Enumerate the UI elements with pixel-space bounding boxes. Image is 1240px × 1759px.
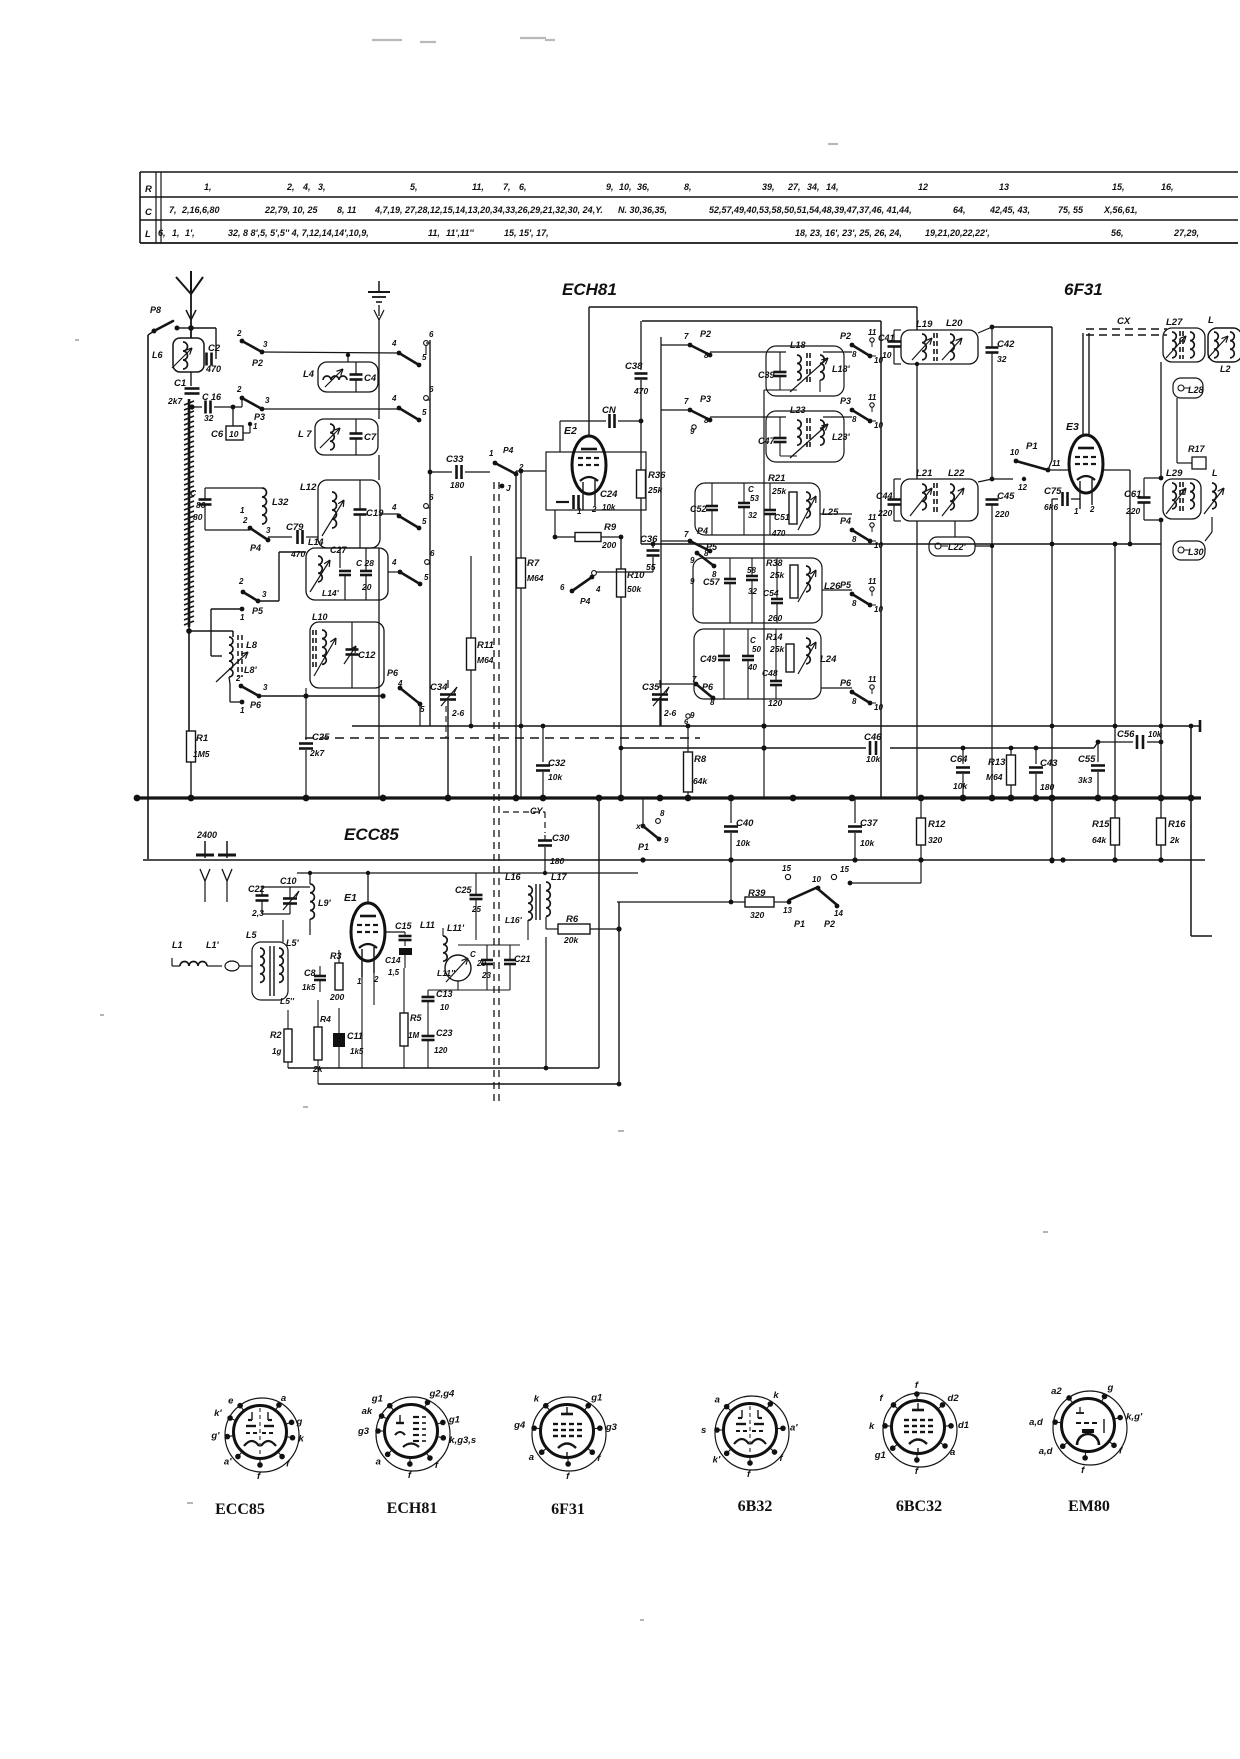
svg-text:L29: L29	[1166, 468, 1183, 479]
parts index table frame	[140, 171, 1238, 173]
coil L32 C80	[199, 498, 212, 501]
svg-text:C24: C24	[600, 489, 618, 500]
svg-text:29: 29	[476, 959, 486, 968]
wire to L19 module	[916, 307, 918, 330]
svg-text:4: 4	[391, 394, 397, 403]
svg-text:15: 15	[840, 865, 849, 874]
transformer L18 L18' C39	[766, 346, 844, 396]
svg-text:20: 20	[361, 582, 372, 592]
capacitor C55 3k3	[1097, 742, 1099, 762]
ferrite rod hatched line	[188, 399, 191, 627]
svg-text:C34: C34	[430, 682, 448, 693]
capacitor C43 180	[1035, 748, 1037, 764]
svg-text:9,: 9,	[606, 182, 614, 192]
svg-text:3: 3	[262, 590, 267, 599]
svg-text:8: 8	[852, 415, 857, 424]
link to L5	[225, 961, 239, 971]
svg-text:75, 55: 75, 55	[1058, 205, 1084, 215]
svg-text:1: 1	[253, 422, 258, 431]
capacitor C79 470	[268, 536, 292, 538]
tube socket 6BC32	[869, 1380, 969, 1477]
switch P6 matrix right	[821, 687, 852, 689]
svg-text:X,56,61,: X,56,61,	[1103, 205, 1138, 215]
wire line B y=748	[621, 747, 866, 749]
capacitor C2 470	[191, 327, 216, 329]
svg-text:L5'': L5''	[280, 996, 295, 1006]
switch P4 mixer	[495, 463, 516, 474]
svg-text:C10: C10	[280, 876, 297, 886]
svg-text:C41: C41	[878, 333, 895, 343]
svg-text:22,79, 10, 25: 22,79, 10, 25	[264, 205, 319, 215]
wire top line ECC85	[297, 872, 638, 874]
module L27	[1163, 328, 1205, 362]
svg-text:2: 2	[236, 385, 242, 394]
chassis rail	[378, 320, 380, 419]
svg-text:10: 10	[812, 875, 821, 884]
module L21 L22	[901, 479, 978, 521]
svg-text:C40: C40	[736, 818, 754, 829]
svg-text:L16: L16	[505, 872, 522, 882]
svg-text:C14: C14	[385, 955, 401, 965]
svg-text:27,29,: 27,29,	[1173, 228, 1199, 238]
capacitors C29 C21	[458, 944, 520, 946]
svg-text:320: 320	[750, 910, 764, 920]
switch P5 matrix right	[822, 589, 852, 591]
svg-text:56,: 56,	[1111, 228, 1124, 238]
svg-text:50: 50	[752, 645, 761, 654]
module R38 L26 row	[693, 558, 822, 623]
svg-text:P1: P1	[794, 919, 805, 929]
svg-text:L9': L9'	[318, 898, 332, 908]
svg-text:C55: C55	[1078, 754, 1096, 765]
svg-text:200: 200	[601, 540, 616, 550]
svg-text:k: k	[869, 1421, 875, 1432]
resistor R4 2k	[314, 1027, 322, 1060]
svg-text:C33: C33	[446, 454, 464, 465]
svg-text:L19: L19	[916, 319, 933, 330]
svg-text:C32: C32	[548, 758, 566, 769]
capacitor C1 2k7	[190, 372, 192, 386]
svg-text:7,: 7,	[503, 182, 511, 192]
svg-text:11: 11	[868, 328, 877, 337]
switch P4 if	[596, 571, 653, 573]
module L19 L20	[901, 330, 978, 364]
svg-text:C7: C7	[364, 432, 377, 443]
svg-text:C46: C46	[864, 732, 882, 743]
resistor R1 1M5	[187, 731, 196, 762]
module L12 C19	[318, 480, 380, 548]
svg-text:a': a'	[790, 1422, 798, 1433]
svg-text:P6: P6	[840, 678, 852, 688]
svg-text:L: L	[1212, 468, 1218, 478]
svg-text:2,16,6,80: 2,16,6,80	[181, 205, 220, 215]
svg-text:1,: 1,	[172, 228, 180, 238]
svg-text:R13: R13	[988, 757, 1006, 768]
svg-text:P3: P3	[700, 394, 711, 404]
svg-text:10k: 10k	[602, 503, 616, 512]
coil L9	[310, 884, 314, 919]
resistor R10 50k	[620, 537, 622, 569]
svg-text:L5: L5	[246, 930, 257, 940]
svg-text:C30: C30	[552, 833, 570, 844]
wire left drop	[142, 859, 144, 861]
svg-text:g: g	[1107, 1382, 1114, 1393]
svg-text:1: 1	[240, 506, 245, 515]
svg-text:C: C	[190, 488, 197, 498]
capacitor C36 55	[651, 542, 656, 547]
capacitor C42 32	[986, 346, 999, 349]
svg-text:6F31: 6F31	[551, 1501, 585, 1518]
svg-text:25k: 25k	[769, 570, 785, 580]
capacitor CN	[560, 420, 606, 422]
svg-text:C15: C15	[395, 921, 413, 931]
svg-text:g1: g1	[371, 1394, 383, 1405]
wire P6 row	[419, 704, 421, 726]
svg-text:1k5: 1k5	[302, 983, 316, 992]
svg-text:L32: L32	[272, 497, 289, 508]
ground symbol	[378, 281, 380, 292]
svg-text:1: 1	[1074, 507, 1079, 516]
svg-text:4: 4	[391, 503, 397, 512]
svg-text:k: k	[298, 1434, 304, 1445]
tube socket EM80	[1029, 1382, 1143, 1475]
svg-text:470: 470	[290, 549, 305, 559]
transformer L23 L23' C47	[766, 411, 844, 462]
svg-text:R17: R17	[1188, 444, 1206, 454]
svg-text:L11': L11'	[447, 923, 465, 933]
transformer L5 L5'	[252, 942, 288, 1000]
svg-text:10k: 10k	[1148, 730, 1162, 739]
svg-text:8: 8	[852, 697, 857, 706]
svg-text:R15: R15	[1092, 819, 1110, 830]
antenna	[176, 277, 191, 294]
svg-text:P2: P2	[252, 358, 263, 368]
svg-text:C: C	[750, 636, 756, 645]
svg-text:a': a'	[224, 1457, 232, 1468]
module R21 L25 row	[695, 483, 820, 535]
wire E1 leads down	[361, 949, 363, 1068]
svg-text:5: 5	[422, 408, 427, 417]
wire right column down	[1160, 520, 1162, 726]
wire right verticals	[1160, 726, 1162, 818]
svg-text:2: 2	[1089, 505, 1095, 514]
capacitor C40 10k	[730, 798, 732, 823]
svg-text:L18': L18'	[832, 364, 851, 374]
svg-text:L14: L14	[308, 537, 324, 547]
svg-text:L23: L23	[790, 405, 806, 415]
svg-text:10: 10	[874, 541, 883, 550]
svg-text:C44: C44	[876, 491, 893, 501]
resistor R8 64k	[687, 726, 689, 752]
dashed coupling line	[305, 737, 700, 739]
svg-text:80: 80	[196, 500, 206, 510]
svg-text:32, 8 8',5, 5',5'' 4, 7,12,14,: 32, 8 8',5, 5',5'' 4, 7,12,14,14',10,9,	[228, 228, 369, 238]
capacitor C61 220	[1138, 496, 1151, 499]
svg-text:L11: L11	[420, 920, 435, 930]
matrix box top	[642, 320, 881, 322]
svg-text:220: 220	[1125, 506, 1140, 516]
svg-text:55: 55	[646, 562, 656, 572]
svg-text:11: 11	[868, 393, 877, 402]
svg-text:C79: C79	[286, 522, 304, 533]
svg-text:14,: 14,	[826, 182, 839, 192]
svg-text:C47: C47	[758, 436, 776, 446]
wire output verticals	[598, 798, 600, 1068]
matrix left rail	[660, 337, 662, 726]
svg-text:CN: CN	[602, 405, 617, 416]
svg-text:10k: 10k	[548, 772, 563, 782]
resistor R12 320	[920, 798, 922, 818]
svg-text:R16: R16	[1168, 819, 1186, 830]
svg-text:L30': L30'	[1188, 547, 1207, 557]
sub coil L22'	[929, 537, 975, 556]
wire long line A y=726	[352, 725, 1200, 727]
svg-text:3: 3	[266, 526, 271, 535]
svg-text:320: 320	[928, 835, 942, 845]
svg-text:P2: P2	[840, 331, 851, 341]
svg-text:1M: 1M	[408, 1031, 419, 1040]
svg-text:P3: P3	[254, 412, 265, 422]
svg-text:P4: P4	[697, 526, 708, 536]
capacitor C41 10	[888, 340, 901, 343]
wire L22 top to P1	[978, 479, 992, 482]
svg-text:8: 8	[852, 599, 857, 608]
CX dashed coupling	[1082, 333, 1084, 436]
svg-text:10k: 10k	[860, 838, 875, 848]
svg-text:L22': L22'	[948, 542, 967, 552]
svg-text:P1: P1	[1026, 441, 1038, 452]
svg-text:g4: g4	[513, 1420, 526, 1431]
svg-text:ECH81: ECH81	[562, 280, 617, 299]
svg-text:R: R	[145, 184, 152, 195]
svg-text:C56: C56	[1117, 729, 1135, 740]
resistor R5 1M	[400, 1013, 408, 1046]
svg-text:L24: L24	[820, 654, 837, 665]
svg-text:2k7: 2k7	[167, 396, 183, 406]
svg-text:EM80: EM80	[1068, 1498, 1110, 1515]
svg-text:12: 12	[918, 182, 928, 192]
svg-text:10: 10	[440, 1003, 449, 1012]
svg-text:C22: C22	[248, 884, 265, 894]
svg-text:5,: 5,	[410, 182, 418, 192]
svg-text:s: s	[701, 1425, 706, 1436]
wire lower rail y=860	[143, 859, 1205, 861]
svg-text:a: a	[950, 1447, 955, 1458]
svg-text:9: 9	[690, 577, 695, 586]
svg-text:J: J	[506, 483, 511, 493]
svg-text:L5': L5'	[286, 938, 300, 948]
svg-text:3k3: 3k3	[1078, 775, 1092, 785]
svg-text:7: 7	[684, 332, 689, 341]
svg-text:C38: C38	[625, 361, 643, 372]
svg-text:d2: d2	[948, 1393, 960, 1404]
svg-text:32: 32	[997, 354, 1007, 364]
svg-text:a2: a2	[1051, 1386, 1062, 1397]
sub coil L28	[1173, 378, 1203, 398]
svg-text:40: 40	[747, 663, 757, 672]
svg-text:a: a	[376, 1456, 381, 1467]
svg-text:7,: 7,	[169, 205, 177, 215]
svg-text:10: 10	[874, 605, 883, 614]
wire C22 C10 tops	[262, 886, 310, 888]
svg-text:C11: C11	[347, 1031, 363, 1041]
svg-text:C48: C48	[762, 668, 778, 678]
svg-text:10: 10	[874, 703, 883, 712]
svg-text:C49: C49	[700, 654, 717, 664]
svg-text:220: 220	[994, 509, 1009, 519]
svg-text:a: a	[529, 1452, 534, 1463]
svg-text:120: 120	[768, 698, 782, 708]
svg-text:P5: P5	[706, 542, 718, 552]
module L10 C12	[310, 622, 384, 688]
tube socket 6F31	[513, 1393, 618, 1482]
svg-text:L8: L8	[246, 640, 258, 651]
svg-text:9: 9	[664, 836, 669, 845]
svg-text:53: 53	[750, 494, 759, 503]
svg-text:10: 10	[882, 350, 892, 360]
svg-text:R2: R2	[270, 1030, 282, 1040]
trimmer C35	[659, 680, 661, 688]
svg-text:10k: 10k	[736, 838, 751, 848]
wire ecc85 bottom rails	[288, 1067, 599, 1069]
svg-text:1: 1	[240, 613, 245, 622]
tube socket ECC85	[210, 1393, 304, 1482]
resistor R9 200	[555, 536, 575, 538]
svg-text:50k: 50k	[627, 584, 642, 594]
resistor R2 1M	[284, 1029, 292, 1062]
svg-text:k,g': k,g'	[1126, 1412, 1143, 1423]
capacitor C30 180	[538, 839, 552, 842]
svg-text:15: 15	[782, 864, 791, 873]
svg-text:L8': L8'	[244, 665, 258, 675]
svg-text:R21: R21	[768, 473, 785, 484]
svg-text:g1: g1	[874, 1450, 886, 1461]
resistor R7 M64	[520, 471, 522, 558]
svg-text:P5: P5	[252, 606, 264, 616]
svg-text:P2: P2	[824, 919, 835, 929]
svg-text:g3: g3	[357, 1426, 370, 1437]
svg-text:6: 6	[429, 385, 434, 394]
svg-text:3: 3	[263, 683, 268, 692]
svg-text:C61: C61	[1124, 489, 1141, 500]
svg-text:5: 5	[424, 573, 429, 582]
svg-text:L17: L17	[551, 872, 568, 882]
svg-text:C42: C42	[997, 339, 1015, 350]
capacitor C46 10k	[869, 741, 872, 755]
capacitor C45 220	[986, 498, 999, 501]
svg-text:P6: P6	[250, 700, 262, 710]
svg-text:10k: 10k	[953, 781, 968, 791]
scan smudge marks	[100, 1014, 104, 1016]
svg-text:g2,g4: g2,g4	[429, 1388, 456, 1399]
svg-text:7: 7	[684, 530, 689, 539]
svg-text:g3: g3	[605, 1422, 618, 1433]
wire P6 row to L10	[259, 695, 383, 697]
svg-text:a: a	[715, 1395, 720, 1406]
svg-text:k': k'	[713, 1454, 721, 1465]
switch P4 left	[250, 528, 268, 540]
svg-text:200: 200	[329, 992, 344, 1002]
svg-text:R12: R12	[928, 819, 946, 830]
svg-text:2400: 2400	[196, 830, 217, 840]
capacitor C22 23	[256, 894, 269, 897]
svg-text:C: C	[470, 950, 476, 959]
svg-text:11: 11	[868, 577, 877, 586]
wire L18 to P3 row	[763, 390, 765, 798]
svg-text:8: 8	[852, 535, 857, 544]
svg-text:2k7: 2k7	[309, 748, 325, 758]
capacitor C6 10	[232, 407, 234, 426]
svg-text:2-6: 2-6	[663, 708, 677, 718]
svg-text:9: 9	[690, 711, 695, 720]
svg-text:d1: d1	[958, 1420, 969, 1431]
svg-text:470: 470	[205, 364, 221, 374]
svg-text:g1: g1	[590, 1393, 602, 1404]
svg-text:42,45, 43,: 42,45, 43,	[989, 205, 1030, 215]
svg-text:2-6: 2-6	[451, 708, 465, 718]
svg-text:1,5: 1,5	[388, 968, 400, 977]
svg-text:8, 11: 8, 11	[337, 205, 356, 215]
svg-text:36,: 36,	[637, 182, 650, 192]
svg-text:6k6: 6k6	[1044, 502, 1058, 512]
svg-text:a: a	[281, 1393, 286, 1404]
svg-text:C43: C43	[1040, 758, 1058, 769]
svg-text:11: 11	[868, 513, 877, 522]
capacitor C24 10k	[556, 501, 569, 503]
svg-text:R11: R11	[477, 640, 494, 651]
wire main bus y=798	[137, 796, 1201, 799]
trimmer C10	[283, 897, 297, 900]
svg-text:23: 23	[481, 971, 491, 980]
svg-text:C27: C27	[330, 545, 348, 555]
svg-text:180: 180	[550, 856, 564, 866]
capacitor C8 1k5	[314, 975, 326, 978]
module L4 C4	[318, 362, 378, 392]
svg-text:20k: 20k	[563, 935, 579, 945]
wire P1 to E3	[1048, 460, 1052, 470]
svg-text:16,: 16,	[1161, 182, 1174, 192]
svg-text:P6: P6	[387, 668, 399, 678]
svg-text:6,: 6,	[158, 228, 166, 238]
capacitor C33 180	[430, 471, 452, 473]
resistor R11 M64	[467, 638, 476, 670]
svg-text:6: 6	[429, 330, 434, 339]
svg-text:M64: M64	[527, 573, 544, 583]
resistor R15 64k	[1114, 544, 1116, 798]
switch P4 matrix right	[820, 513, 852, 515]
svg-text:2: 2	[591, 505, 597, 514]
svg-text:11',11'': 11',11''	[446, 228, 474, 238]
trimmer C34	[447, 680, 449, 688]
svg-text:R1: R1	[196, 733, 208, 744]
svg-text:C54: C54	[763, 588, 779, 598]
svg-text:8,: 8,	[684, 182, 692, 192]
svg-text:C12: C12	[358, 650, 376, 661]
svg-text:2: 2	[242, 516, 248, 525]
svg-text:25k: 25k	[769, 644, 785, 654]
svg-text:32: 32	[748, 511, 757, 520]
svg-text:P3: P3	[840, 396, 851, 406]
svg-text:P8: P8	[150, 305, 161, 315]
rail right of band switches	[429, 340, 431, 726]
svg-text:34,: 34,	[807, 182, 820, 192]
svg-text:14: 14	[834, 909, 843, 918]
svg-text:R6: R6	[566, 914, 579, 925]
resistor R36 25k	[640, 421, 642, 470]
svg-text:10: 10	[1010, 448, 1019, 457]
svg-text:L2: L2	[1220, 364, 1231, 374]
svg-text:C52: C52	[690, 504, 707, 514]
